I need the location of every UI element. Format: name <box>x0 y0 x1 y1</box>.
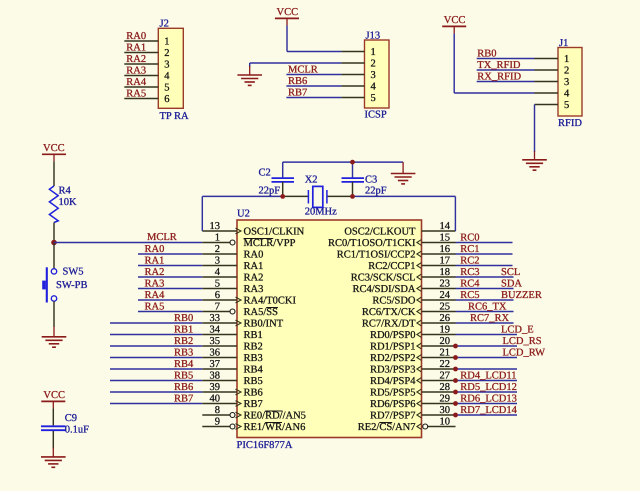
svg-text:RA1: RA1 <box>145 256 165 267</box>
wire crystal bottom rail <box>202 195 282 197</box>
svg-text:RD4/PSP4: RD4/PSP4 <box>370 376 416 387</box>
svg-text:RB3: RB3 <box>244 353 263 364</box>
U2 pin 10 (RE2/CS/AN7) right <box>428 426 456 428</box>
J13 pin 5 stub <box>341 97 364 99</box>
svg-text:10: 10 <box>440 417 451 428</box>
svg-text:4: 4 <box>164 71 170 82</box>
svg-text:RC2: RC2 <box>460 256 479 267</box>
svg-text:LCD_RS: LCD_RS <box>503 336 542 347</box>
svg-text:26: 26 <box>440 313 451 324</box>
J1 pin 5 stub <box>535 104 559 106</box>
svg-text:5: 5 <box>371 93 376 104</box>
svg-text:36: 36 <box>210 348 221 359</box>
svg-text:RA5/SS: RA5/SS <box>244 307 279 318</box>
svg-text:RB1: RB1 <box>244 330 263 341</box>
wire RA3 <box>138 288 202 290</box>
svg-text:RB0: RB0 <box>477 49 496 60</box>
U2 pin 37 (RB4) left <box>202 368 237 370</box>
junction at LCD_RS pin <box>453 344 458 349</box>
svg-text:RA4: RA4 <box>145 290 166 301</box>
wire SW5 to ground <box>53 301 55 327</box>
svg-text:TX_RFID: TX_RFID <box>477 60 521 71</box>
svg-text:RA4: RA4 <box>126 77 147 88</box>
svg-text:RA2: RA2 <box>145 267 165 278</box>
U2 pin 19 (RD0/PSP0) right <box>422 334 456 336</box>
J13 pin 2 stub <box>341 62 364 64</box>
svg-text:RE2/CS/AN7: RE2/CS/AN7 <box>358 422 416 433</box>
wire VCC to J13 pin 1 <box>286 25 288 51</box>
svg-text:6: 6 <box>164 94 169 105</box>
svg-text:RD7_LCD14: RD7_LCD14 <box>460 405 517 416</box>
svg-text:18: 18 <box>440 267 451 278</box>
U2 pin 9 (RE1/WR/AN6) left <box>202 426 230 428</box>
svg-text:16: 16 <box>440 244 451 255</box>
wire RA0 <box>138 253 202 255</box>
J13 pin 4 stub <box>341 85 364 87</box>
J1 pin 2 stub <box>535 69 559 71</box>
wire pin row 12 right <box>456 368 518 370</box>
U2 pin 21 (RD2/PSP2) right <box>422 357 456 359</box>
svg-text:1: 1 <box>371 47 376 58</box>
svg-text:22pF: 22pF <box>365 186 387 197</box>
junction C3 top <box>350 160 355 165</box>
svg-text:VCC: VCC <box>444 15 466 26</box>
svg-text:VCC: VCC <box>277 7 299 18</box>
svg-text:20MHz: 20MHz <box>305 207 337 218</box>
junction at RD7_LCD14 pin <box>453 413 458 418</box>
svg-text:RB4: RB4 <box>244 365 264 376</box>
wire RB5 <box>110 380 202 382</box>
U2 pin 8 (RE0/RD//AN5) left <box>202 414 230 416</box>
svg-text:X2: X2 <box>305 174 318 185</box>
svg-text:RB2: RB2 <box>174 336 193 347</box>
wire RB7 <box>110 403 202 405</box>
junction at RD6_LCD13 pin <box>453 401 458 406</box>
svg-text:17: 17 <box>440 256 451 267</box>
J1 pin 1 stub <box>535 58 559 60</box>
svg-text:27: 27 <box>440 371 451 382</box>
wire RB7 to J13 pin 5 <box>286 97 341 99</box>
svg-text:VCC: VCC <box>43 143 65 154</box>
svg-text:PIC16F877A: PIC16F877A <box>237 440 293 451</box>
svg-text:0.1uF: 0.1uF <box>65 425 89 436</box>
U2 pin 29 (RD6/PSP6) right <box>422 403 456 405</box>
svg-text:RD4_LCD11: RD4_LCD11 <box>460 371 516 382</box>
capacitor C2 <box>282 162 284 178</box>
svg-text:SW-PB: SW-PB <box>56 280 88 291</box>
wire MCLR to J13 pin 3 <box>286 74 341 76</box>
svg-text:39: 39 <box>210 382 221 393</box>
svg-text:TP RA: TP RA <box>160 111 189 122</box>
svg-text:RC4: RC4 <box>460 279 480 290</box>
wire VCC to J1 pin 4 <box>453 33 455 93</box>
svg-text:1: 1 <box>215 233 220 244</box>
U2 pin 15 (RC0/T1OSO/T1CKI) right <box>422 242 456 244</box>
svg-text:RC6_TX: RC6_TX <box>468 302 507 313</box>
svg-text:RA0: RA0 <box>244 250 264 261</box>
junction node MCLR <box>51 240 57 246</box>
svg-text:19: 19 <box>440 325 451 336</box>
svg-text:C9: C9 <box>65 413 77 424</box>
U2 pin 6 (RA4/T0CKI) left <box>202 299 237 301</box>
U2 pin 2 (RA0) left <box>202 253 237 255</box>
U2 pin 13 (OSC1/CLKIN) left <box>202 230 237 232</box>
U2 pin 27 (RD4/PSP4) right <box>422 380 456 382</box>
svg-text:RA5: RA5 <box>126 89 146 100</box>
U2 pin 5 (RA3) left <box>202 288 237 290</box>
ground (crystal) <box>402 162 404 173</box>
wire RD4_LCD11 right <box>456 380 518 382</box>
svg-text:RC2/CCP1: RC2/CCP1 <box>368 261 415 272</box>
svg-text:24: 24 <box>440 290 451 301</box>
svg-text:RB3: RB3 <box>174 348 193 359</box>
svg-text:RD5/PSP5: RD5/PSP5 <box>370 388 416 399</box>
svg-text:RB0: RB0 <box>174 313 193 324</box>
svg-text:1: 1 <box>164 37 169 48</box>
svg-text:R4: R4 <box>59 185 72 196</box>
U2 pin 35 (RB2) left <box>202 345 237 347</box>
svg-text:8: 8 <box>215 405 220 416</box>
svg-text:5: 5 <box>564 100 569 111</box>
ground (ICSP) <box>249 66 251 75</box>
svg-text:21: 21 <box>440 348 451 359</box>
ground (RFID) <box>534 151 536 160</box>
U2 pin 40 (RB7) left <box>202 403 237 405</box>
wire RC6_TX right <box>456 311 514 313</box>
svg-text:RD5_LCD12: RD5_LCD12 <box>460 382 517 393</box>
J2 pin 5 wire <box>124 86 158 88</box>
svg-text:RE1/WR/AN6: RE1/WR/AN6 <box>244 422 306 433</box>
svg-text:20: 20 <box>440 336 451 347</box>
wire LCD_RS right <box>456 345 518 347</box>
wire OSC1 riser <box>201 196 203 231</box>
svg-text:RB7: RB7 <box>174 394 193 405</box>
ground (SW5) <box>53 327 55 337</box>
svg-text:RC0: RC0 <box>460 233 479 244</box>
wire RC3 right <box>456 276 514 278</box>
wire J13 pin 2 to ground <box>250 62 342 64</box>
wire RD6_LCD13 right <box>456 403 518 405</box>
wire RX_RFID to J1 pin 3 <box>477 81 535 83</box>
svg-text:OSC1/CLKIN: OSC1/CLKIN <box>244 227 305 238</box>
svg-text:RA3: RA3 <box>126 66 146 77</box>
svg-text:25: 25 <box>440 302 451 313</box>
wire RB4 <box>110 368 202 370</box>
svg-text:RC7_RX: RC7_RX <box>470 313 510 324</box>
svg-text:RB6: RB6 <box>244 388 263 399</box>
svg-text:14: 14 <box>440 221 451 232</box>
wire RD5_LCD12 right <box>456 391 518 393</box>
svg-text:2: 2 <box>164 48 169 59</box>
U2 pin 4 (RA2) left <box>202 276 237 278</box>
svg-text:ICSP: ICSP <box>365 110 387 121</box>
wire MCLR to U2 <box>54 242 202 244</box>
svg-text:J1: J1 <box>559 38 568 49</box>
svg-text:3: 3 <box>164 60 169 71</box>
svg-text:5: 5 <box>164 83 169 94</box>
U2 pin 24 (RC5/SDO) right <box>422 299 456 301</box>
svg-text:RA2: RA2 <box>244 273 264 284</box>
U2 pin 38 (RB5) left <box>202 380 237 382</box>
svg-text:2: 2 <box>371 59 376 70</box>
U2 pin 17 (RC2/CCP1) right <box>422 265 456 267</box>
svg-text:RA3: RA3 <box>244 284 264 295</box>
svg-text:RB7: RB7 <box>288 88 307 99</box>
svg-text:RB4: RB4 <box>174 359 194 370</box>
svg-text:RB7: RB7 <box>244 399 263 410</box>
J1 pin 4 stub <box>535 92 559 94</box>
svg-text:RB1: RB1 <box>174 325 193 336</box>
capacitor C9 <box>41 425 66 427</box>
svg-text:33: 33 <box>210 313 221 324</box>
wire LCD_RW right <box>456 357 518 359</box>
svg-text:RC7/RX/DT: RC7/RX/DT <box>362 319 416 330</box>
IC U2 PIC16F877A body <box>237 220 422 438</box>
svg-text:RC6/TX/CK: RC6/TX/CK <box>362 307 416 318</box>
svg-text:RC1/T1OSI/CCP2: RC1/T1OSI/CCP2 <box>337 250 416 261</box>
svg-text:SW5: SW5 <box>63 266 84 277</box>
svg-text:RA3: RA3 <box>145 279 165 290</box>
svg-text:RC1: RC1 <box>460 244 479 255</box>
J13 pin 1 stub <box>341 51 364 53</box>
svg-text:10K: 10K <box>59 197 78 208</box>
wire LCD_E right <box>456 334 518 336</box>
svg-text:OSC2/CLKOUT: OSC2/CLKOUT <box>344 227 416 238</box>
svg-text:15: 15 <box>440 233 451 244</box>
svg-text:SCL: SCL <box>501 267 520 278</box>
svg-text:C2: C2 <box>259 168 271 179</box>
wire RB6 <box>110 391 202 393</box>
svg-text:RA0: RA0 <box>126 31 146 42</box>
wire OSC2 riser <box>454 196 456 231</box>
wire RA4 <box>138 299 202 301</box>
svg-text:RD0/PSP0: RD0/PSP0 <box>370 330 416 341</box>
wire RC4 right <box>456 288 514 290</box>
svg-text:37: 37 <box>210 359 221 370</box>
svg-text:4: 4 <box>564 89 570 100</box>
wire TX_RFID to J1 pin 2 <box>477 69 535 71</box>
svg-text:6: 6 <box>215 290 220 301</box>
svg-text:MCLR/VPP: MCLR/VPP <box>244 238 296 249</box>
svg-text:3: 3 <box>564 77 569 88</box>
wire RD7_LCD14 right <box>456 414 518 416</box>
wire RB1 <box>110 334 202 336</box>
wire VCC to R4 <box>53 161 55 186</box>
svg-text:RC0/T1OSO/T1CKI: RC0/T1OSO/T1CKI <box>328 238 416 249</box>
U2 pin 23 (RC4/SDI/SDA) right <box>422 288 456 290</box>
wire RC2 right <box>456 265 513 267</box>
junction C2 bottom <box>280 194 285 199</box>
U2 pin 25 (RC6/TX/CK) right <box>422 311 456 313</box>
svg-text:RB6: RB6 <box>288 76 307 87</box>
connector J2 body <box>158 28 183 108</box>
wire RB0 <box>110 322 202 324</box>
wire node to SW5 <box>53 243 55 269</box>
svg-text:RC5/SDO: RC5/SDO <box>372 296 416 307</box>
svg-text:LCD_E: LCD_E <box>501 325 534 336</box>
U2 pin 26 (RC7/RX/DT) right <box>422 322 456 324</box>
svg-text:9: 9 <box>215 417 220 428</box>
J1 pin 3 stub <box>535 81 559 83</box>
wire C9 to ground <box>52 431 54 449</box>
svg-text:13: 13 <box>210 221 221 232</box>
J2 pin 1 wire <box>124 40 158 42</box>
svg-text:3: 3 <box>215 256 220 267</box>
svg-text:28: 28 <box>440 382 451 393</box>
svg-text:23: 23 <box>440 279 451 290</box>
svg-text:RB0/INT: RB0/INT <box>244 319 284 330</box>
wire R4 to node <box>53 223 55 243</box>
capacitor C3 <box>352 162 354 178</box>
wire RC0 right <box>456 242 513 244</box>
U2 pin 33 (RB0/INT) left <box>202 322 237 324</box>
wire RA1 <box>138 265 202 267</box>
svg-text:5: 5 <box>215 279 220 290</box>
U2 pin 18 (RC3/SCK/SCL) right <box>422 276 456 278</box>
J2 pin 6 wire <box>124 98 158 100</box>
svg-text:RA0: RA0 <box>145 244 165 255</box>
U2 pin 16 (RC1/T1OSI/CCP2) right <box>422 253 456 255</box>
svg-text:RD7/PSP7: RD7/PSP7 <box>370 411 416 422</box>
connector J1 body <box>558 48 582 117</box>
wire RC5 right <box>456 299 514 301</box>
wire RA2 <box>138 276 202 278</box>
svg-text:MCLR: MCLR <box>147 232 177 243</box>
svg-text:29: 29 <box>440 394 451 405</box>
svg-text:1: 1 <box>564 54 569 65</box>
U2 pin 14 (OSC2/CLKOUT) right <box>422 230 456 232</box>
svg-text:VCC: VCC <box>43 390 65 401</box>
svg-text:RD1/PSP1: RD1/PSP1 <box>370 342 416 353</box>
svg-text:J2: J2 <box>160 18 169 29</box>
resistor R4 <box>49 186 58 223</box>
svg-text:35: 35 <box>210 336 221 347</box>
J2 pin 4 wire <box>124 75 158 77</box>
svg-text:U2: U2 <box>237 209 250 220</box>
svg-text:7: 7 <box>215 302 220 313</box>
ground (C9) <box>52 448 54 457</box>
U2 pin 28 (RD5/PSP5) right <box>422 391 456 393</box>
svg-text:RC3/SCK/SCL: RC3/SCK/SCL <box>351 273 416 284</box>
svg-text:RB2: RB2 <box>244 342 263 353</box>
U2 pin 36 (RB3) left <box>202 357 237 359</box>
svg-text:2: 2 <box>215 244 220 255</box>
switch SW5 (SW-PB) <box>51 269 56 274</box>
wire RB3 <box>110 357 202 359</box>
svg-text:RC4/SDI/SDA: RC4/SDI/SDA <box>352 284 415 295</box>
svg-text:LCD_RW: LCD_RW <box>503 348 546 359</box>
U2 pin 30 (RD7/PSP7) right <box>422 414 456 416</box>
U2 pin 39 (RB6) left <box>202 391 237 393</box>
svg-text:RFID: RFID <box>558 118 582 129</box>
wire RC1 right <box>456 253 513 255</box>
J2 pin 2 wire <box>124 52 158 54</box>
U2 pin 3 (RA1) left <box>202 265 237 267</box>
wire RB6 to J13 pin 4 <box>286 85 341 87</box>
U2 pin 1 (MCLR/VPP) left <box>202 242 230 244</box>
svg-text:RA2: RA2 <box>126 54 146 65</box>
svg-text:RA4/T0CKI: RA4/T0CKI <box>244 296 297 307</box>
U2 pin 22 (RD3/PSP3) right <box>422 368 456 370</box>
J13 pin 3 stub <box>341 74 364 76</box>
svg-text:4: 4 <box>371 82 377 93</box>
U2 pin 20 (RD1/PSP1) right <box>422 345 456 347</box>
junction C3 bottom <box>350 194 355 199</box>
U2 pin 7 (RA5/SS) left <box>202 311 230 313</box>
svg-text:4: 4 <box>215 267 221 278</box>
svg-text:J13: J13 <box>366 30 381 41</box>
svg-text:RE0/RD//AN5: RE0/RD//AN5 <box>244 411 306 422</box>
J2 pin 3 wire <box>124 63 158 65</box>
svg-text:RA1: RA1 <box>126 43 146 54</box>
svg-text:RX_RFID: RX_RFID <box>477 72 521 83</box>
svg-text:RC3: RC3 <box>460 267 479 278</box>
svg-text:34: 34 <box>210 325 221 336</box>
junction at RD4_LCD11 pin <box>453 378 458 383</box>
wire RC7_RX right <box>456 322 514 324</box>
svg-text:38: 38 <box>210 371 221 382</box>
svg-text:3: 3 <box>371 70 376 81</box>
svg-text:RD3/PSP3: RD3/PSP3 <box>370 365 416 376</box>
svg-text:2: 2 <box>564 66 569 77</box>
junction at LCD_RW pin <box>453 355 458 360</box>
wire RB2 <box>110 345 202 347</box>
svg-text:RD6/PSP6: RD6/PSP6 <box>370 399 416 410</box>
svg-text:RB6: RB6 <box>174 382 193 393</box>
connector J13 body <box>365 40 390 108</box>
wire J1 pin 5 to ground <box>534 105 536 153</box>
crystal X2 <box>307 190 309 204</box>
junction at RD5_LCD12 pin <box>453 390 458 395</box>
svg-text:SDA: SDA <box>501 279 522 290</box>
svg-text:RB5: RB5 <box>174 371 193 382</box>
svg-text:RD2/PSP2: RD2/PSP2 <box>370 353 416 364</box>
svg-text:MCLR: MCLR <box>288 65 318 76</box>
svg-text:RB5: RB5 <box>244 376 263 387</box>
U2 pin 34 (RB1) left <box>202 334 237 336</box>
svg-text:C3: C3 <box>365 174 377 185</box>
svg-text:22: 22 <box>440 359 451 370</box>
wire VCC to C9 <box>52 408 54 425</box>
junction at pin row 12 pin <box>453 367 458 372</box>
svg-text:22pF: 22pF <box>259 186 281 197</box>
wire crystal top rail <box>283 161 403 163</box>
svg-text:RD6_LCD13: RD6_LCD13 <box>460 394 517 405</box>
svg-text:RA1: RA1 <box>244 261 264 272</box>
wire RA5 <box>138 311 202 313</box>
svg-text:BUZZER: BUZZER <box>501 290 542 301</box>
wire RB0 to J1 pin 1 <box>477 58 535 60</box>
svg-text:30: 30 <box>440 405 451 416</box>
svg-text:40: 40 <box>210 394 221 405</box>
svg-text:RC5: RC5 <box>460 290 479 301</box>
svg-text:RA5: RA5 <box>145 302 165 313</box>
